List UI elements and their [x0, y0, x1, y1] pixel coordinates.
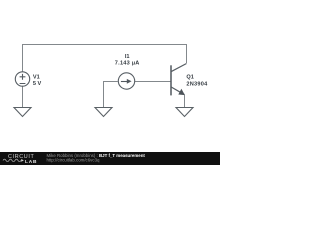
ground (under V1)	[14, 108, 31, 117]
footer credits	[47, 153, 146, 163]
wire: Q1 emitter to ground	[184, 95, 186, 108]
svg-text:2N3904: 2N3904	[186, 81, 208, 87]
CircuitLab logo	[3, 154, 37, 165]
wire: ground up to I1 left terminal	[104, 82, 118, 108]
voltage source V1	[15, 72, 29, 86]
svg-text:5 V: 5 V	[33, 81, 42, 87]
svg-text:LAB: LAB	[25, 159, 37, 165]
svg-text:7.143 µA: 7.143 µA	[115, 60, 140, 66]
svg-text:http://circuitlab.com/c6vc3q: http://circuitlab.com/c6vc3q	[47, 158, 101, 163]
svg-text:I1: I1	[125, 54, 130, 60]
wire: V1- down to ground	[22, 87, 24, 108]
ground (under Q1 emitter)	[176, 108, 193, 117]
svg-text:Q1: Q1	[186, 75, 193, 81]
Q1 base bar	[170, 65, 172, 95]
wire: I1 right terminal to Q1 base	[135, 81, 171, 83]
ground (under I1)	[95, 108, 112, 117]
current source I1	[118, 73, 134, 89]
Q1 emitter lead	[171, 87, 185, 95]
wire top: V1+ to Q1 collector	[23, 45, 187, 72]
footer bar	[0, 152, 220, 165]
Q1 emitter arrowhead	[178, 89, 185, 95]
transistor Q1	[171, 64, 187, 108]
svg-text:V1: V1	[33, 74, 40, 80]
Q1 collector lead	[171, 64, 187, 72]
